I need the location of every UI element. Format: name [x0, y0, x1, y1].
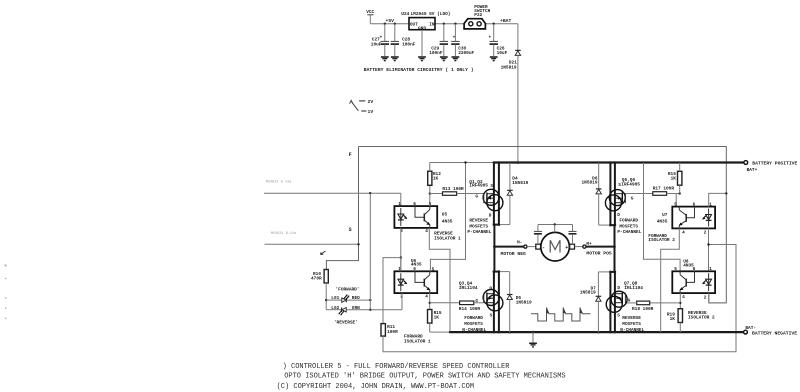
svg-text:S: S	[490, 183, 493, 189]
svg-text:(C) COPYRIGHT 2004, JOHN DRAIN: (C) COPYRIGHT 2004, JOHN DRAIN, WWW.PT-B…	[277, 383, 474, 391]
svg-text:IRL1104: IRL1104	[459, 285, 478, 291]
svg-text:2V: 2V	[368, 99, 374, 105]
svg-text:+: +	[453, 35, 456, 40]
svg-text:2: 2	[704, 230, 707, 236]
svg-text:F: F	[349, 152, 352, 158]
svg-text:P22: P22	[474, 12, 482, 18]
svg-text:S: S	[349, 227, 352, 233]
svg-text:470R: 470R	[311, 276, 322, 282]
svg-text:+5V: +5V	[386, 18, 395, 24]
svg-text:M+: M+	[586, 241, 592, 247]
svg-text:-: -	[542, 245, 545, 251]
svg-text:'FORWARD': 'FORWARD'	[336, 287, 360, 293]
svg-text:REVERSE: REVERSE	[469, 218, 488, 224]
svg-text:G: G	[631, 195, 634, 201]
svg-text:4: 4	[425, 228, 428, 234]
svg-text:U24: U24	[401, 11, 409, 17]
svg-text:G: G	[628, 297, 631, 303]
svg-text:1V: 1V	[368, 109, 374, 115]
svg-text:'REVERSE': 'REVERSE'	[334, 320, 358, 326]
svg-text:R17 100R: R17 100R	[653, 186, 675, 192]
svg-text:MOSFETS: MOSFETS	[619, 223, 638, 229]
svg-text:1K: 1K	[434, 315, 440, 321]
svg-text:IN: IN	[429, 21, 435, 27]
svg-text:REVERSE: REVERSE	[622, 315, 641, 321]
svg-text:1N5819: 1N5819	[501, 64, 517, 70]
svg-text:1N5819: 1N5819	[582, 180, 598, 186]
svg-text:FORWARD: FORWARD	[619, 218, 638, 224]
svg-text:2200uF: 2200uF	[458, 50, 474, 56]
svg-text:G: G	[475, 298, 478, 304]
svg-text:GRN: GRN	[352, 305, 360, 311]
svg-text:10uF: 10uF	[371, 42, 382, 48]
svg-text:R14 100R: R14 100R	[459, 306, 481, 312]
svg-text:6: 6	[693, 201, 696, 207]
svg-text:D: D	[617, 212, 620, 218]
svg-text:ISOLATOR 2: ISOLATOR 2	[648, 237, 675, 243]
svg-text:1: 1	[709, 266, 712, 272]
svg-text:P-CHANNEL: P-CHANNEL	[617, 229, 641, 235]
svg-text:N-CHANNEL: N-CHANNEL	[620, 327, 644, 333]
svg-text:4: 4	[425, 294, 428, 300]
svg-text:BATTERY POSITIVE: BATTERY POSITIVE	[752, 161, 797, 167]
svg-text:OUT: OUT	[410, 21, 418, 27]
svg-text:) CONTROLLER 5 - FULL FORWARD/: ) CONTROLLER 5 - FULL FORWARD/REVERSE SP…	[283, 363, 511, 371]
svg-text:RED: RED	[352, 295, 360, 301]
svg-text:ISOLATOR 1: ISOLATOR 1	[404, 338, 431, 344]
svg-text:FORWARD: FORWARD	[464, 315, 483, 321]
svg-text:+BAT: +BAT	[500, 18, 511, 24]
svg-text:G: G	[475, 194, 478, 200]
svg-text:+: +	[565, 245, 568, 251]
svg-text:D: D	[489, 285, 492, 291]
svg-text:100nF: 100nF	[429, 50, 443, 56]
svg-text:IRL1104: IRL1104	[624, 285, 643, 291]
svg-text:M50831 E-14a: M50831 E-14a	[266, 181, 291, 185]
svg-text:BAT-: BAT-	[745, 325, 756, 331]
svg-text:LM2940 5V (LDO): LM2940 5V (LDO)	[411, 11, 451, 17]
svg-text:4: 4	[682, 230, 685, 236]
svg-text:L01: L01	[331, 295, 339, 301]
svg-text:BAT+: BAT+	[747, 167, 758, 173]
svg-text:4N35: 4N35	[442, 219, 453, 225]
svg-text:U5: U5	[442, 212, 448, 218]
svg-text:5: 5	[674, 201, 677, 207]
svg-text:5: 5	[674, 266, 677, 272]
svg-text:BATTERY NEGATIVE: BATTERY NEGATIVE	[752, 330, 797, 336]
svg-text:MOTOR POS: MOTOR POS	[586, 251, 612, 257]
svg-text:U7: U7	[662, 212, 668, 218]
svg-text:6: 6	[413, 201, 416, 207]
svg-text:5: 5	[432, 266, 435, 272]
svg-text:MOSFETS: MOSFETS	[622, 321, 641, 327]
svg-text:1K: 1K	[671, 176, 677, 182]
svg-text:+: +	[380, 35, 383, 40]
svg-text:S: S	[490, 313, 493, 319]
svg-text:IRF4905: IRF4905	[469, 183, 488, 189]
svg-text:OPTO ISOLATED 'H' BRIDGE OUTPU: OPTO ISOLATED 'H' BRIDGE OUTPUT, POWER S…	[284, 372, 565, 380]
svg-text:D: D	[489, 213, 492, 219]
svg-text:BATTERY ELIMINATOR CIRCUITRY (: BATTERY ELIMINATOR CIRCUITRY ( 1 ONLY )	[364, 67, 474, 73]
svg-text:MOSFETS: MOSFETS	[464, 321, 483, 327]
svg-text:1K: 1K	[670, 316, 676, 322]
svg-text:100nF: 100nF	[402, 42, 416, 48]
svg-text:1K: 1K	[433, 176, 439, 182]
svg-text:+: +	[489, 35, 492, 40]
svg-text:1N5819: 1N5819	[516, 300, 532, 306]
svg-text:4N35: 4N35	[411, 261, 422, 267]
svg-text:10uF: 10uF	[497, 50, 508, 56]
svg-text:1: 1	[398, 201, 401, 207]
svg-text:4N35: 4N35	[683, 263, 694, 269]
svg-text:S: S	[617, 313, 620, 319]
svg-text:IRF4905: IRF4905	[621, 181, 640, 187]
svg-text:2: 2	[704, 295, 707, 301]
svg-text:ISOLATOR 2: ISOLATOR 2	[688, 315, 715, 321]
svg-text:P-CHANNEL: P-CHANNEL	[467, 229, 491, 235]
svg-text:R18 100R: R18 100R	[632, 306, 654, 312]
svg-text:MOSFETS: MOSFETS	[469, 223, 488, 229]
svg-text:1N5819: 1N5819	[580, 290, 596, 296]
svg-text:100R: 100R	[387, 329, 398, 335]
svg-text:MOTOR NEG: MOTOR NEG	[501, 251, 527, 257]
svg-text:4N35: 4N35	[657, 219, 668, 225]
svg-text:ISOLATOR 1: ISOLATOR 1	[434, 235, 461, 241]
svg-text:M50831 B-14a: M50831 B-14a	[271, 232, 296, 236]
svg-text:1N5819: 1N5819	[512, 180, 528, 186]
svg-text:R13 100R: R13 100R	[442, 186, 464, 192]
svg-text:L02: L02	[331, 305, 339, 311]
svg-text:M-: M-	[517, 240, 522, 246]
svg-text:N-CHANNEL: N-CHANNEL	[462, 327, 486, 333]
svg-text:1: 1	[709, 201, 712, 207]
svg-text:D: D	[617, 285, 620, 291]
svg-text:4: 4	[682, 294, 685, 300]
